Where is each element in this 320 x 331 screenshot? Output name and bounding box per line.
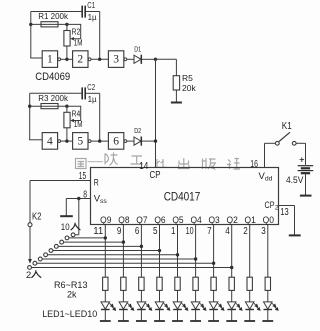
LED2: [122, 290, 124, 302]
svg-text:Q2: Q2: [227, 215, 238, 226]
node D2 output junction: [154, 139, 157, 142]
svg-text:1: 1: [47, 54, 53, 66]
resistor column 10: [265, 277, 270, 290]
inverter gate 6: [108, 133, 123, 150]
ground LED5: [177, 310, 179, 321]
svg-text:2k: 2k: [67, 289, 77, 299]
svg-text:3: 3: [261, 226, 266, 237]
wire input node osc2: [29, 93, 31, 140]
ground at pin13: [289, 234, 301, 236]
svg-text:13: 13: [280, 207, 289, 218]
svg-text:Q5: Q5: [172, 215, 183, 226]
resistor column 9: [247, 277, 252, 290]
inverter gate 1: [42, 51, 57, 68]
wire gate out 1-2: [61, 140, 73, 142]
svg-text:Q1: Q1: [245, 215, 256, 226]
svg-text:6: 6: [135, 226, 140, 237]
wire contact to Q7: [58, 245, 141, 247]
wire column Q1: [249, 225, 251, 278]
resistor column 5: [175, 277, 180, 290]
ground under R5: [175, 90, 177, 102]
battery 4.5V: [300, 159, 305, 161]
wire top feedback osc2: [30, 92, 82, 94]
wire node to R5: [156, 58, 177, 60]
inverter gate 4: [42, 133, 57, 150]
wire pin8 to ground: [66, 198, 90, 200]
inverter gate 2: [73, 51, 88, 68]
svg-text:1: 1: [171, 226, 176, 237]
svg-text:10: 10: [61, 222, 70, 233]
svg-text:C2: C2: [87, 83, 95, 92]
svg-text:Vdd: Vdd: [259, 171, 273, 183]
ground at Vss: [65, 199, 67, 216]
LED5: [177, 290, 179, 302]
wire column Q9: [104, 225, 106, 278]
wire column Q2: [231, 225, 233, 278]
svg-text:2: 2: [26, 270, 31, 281]
svg-text:K1: K1: [282, 121, 292, 132]
LED8: [231, 290, 233, 302]
svg-text:2: 2: [77, 54, 83, 66]
ground LED7: [213, 310, 215, 321]
node R1 left junction: [29, 23, 32, 26]
wire column Q0: [267, 225, 269, 278]
inverter gate 5: [73, 133, 88, 150]
resistor column 3: [139, 277, 144, 290]
svg-text:CD4069: CD4069: [35, 71, 70, 83]
svg-text:20k: 20k: [182, 83, 196, 93]
wire column Q7: [140, 225, 142, 278]
svg-text:Q6: Q6: [154, 215, 165, 226]
svg-text:Q3: Q3: [208, 215, 219, 226]
ground LED10: [267, 310, 269, 321]
svg-text:10: 10: [186, 226, 194, 237]
svg-text:CP: CP: [265, 200, 275, 211]
ground at battery: [300, 195, 312, 197]
svg-text:11: 11: [93, 226, 103, 237]
svg-text:5: 5: [153, 226, 158, 237]
wire column Q5: [177, 225, 179, 278]
diode D1: [127, 58, 134, 60]
svg-text:14: 14: [139, 161, 148, 172]
capacitor C1 1µ: [81, 6, 83, 18]
svg-text:CP: CP: [150, 170, 161, 181]
contact 8-person: [60, 240, 64, 244]
svg-text:7: 7: [207, 226, 212, 237]
wire column Q4: [195, 225, 197, 278]
watermark publisher row: [76, 153, 241, 170]
LED4: [159, 290, 161, 302]
capacitor C2 1µ: [81, 87, 83, 99]
resistor R3 200k: [41, 104, 58, 109]
svg-text:6: 6: [113, 135, 119, 147]
wire column Q3: [213, 225, 215, 278]
svg-text:1µ: 1µ: [88, 95, 97, 104]
wire gate out 1-2: [61, 58, 73, 60]
wire top feedback osc1: [31, 11, 82, 13]
wire contact to Q3: [37, 262, 214, 264]
wire contact to Q6: [53, 250, 160, 252]
svg-text:C1: C1: [87, 1, 95, 10]
wire R branch osc1: [31, 23, 67, 25]
resistor column 7: [211, 277, 216, 290]
LED3: [140, 290, 142, 302]
diode D2: [127, 140, 134, 142]
LED6: [195, 290, 197, 302]
contact 4-person: [38, 257, 42, 261]
contact 3-person: [33, 261, 37, 265]
wire column Q8: [122, 225, 124, 278]
svg-text:Q8: Q8: [118, 215, 129, 226]
svg-text:4: 4: [47, 135, 53, 147]
ground LED4: [159, 310, 161, 321]
ground LED8: [231, 310, 233, 321]
svg-text:K2: K2: [32, 211, 42, 222]
wire K1 to battery: [296, 142, 305, 144]
wire battery to ground: [305, 174, 307, 195]
wire gate out 2-3: [91, 58, 108, 60]
inverter gate 3: [108, 51, 123, 68]
svg-text:5: 5: [77, 135, 83, 147]
svg-text:Q9: Q9: [100, 215, 111, 226]
wire contact to Q2: [32, 266, 232, 268]
svg-text:D1: D1: [134, 44, 141, 53]
node D1 output junction: [154, 58, 157, 61]
resistor column 4: [157, 277, 162, 290]
wire Vss to contact-10: [78, 199, 80, 235]
svg-text:LED1~LED10: LED1~LED10: [42, 309, 97, 319]
ground LED6: [195, 310, 197, 321]
svg-text:D2: D2: [134, 126, 141, 135]
svg-text:Q0: Q0: [263, 215, 274, 226]
wire pin16 to K1: [264, 143, 266, 167]
wire gate out 2-3: [91, 140, 108, 142]
svg-text:Q7: Q7: [136, 215, 147, 226]
node R3 left junction: [28, 105, 31, 108]
resistor column 1: [103, 277, 108, 290]
svg-text:2: 2: [243, 226, 248, 237]
resistor column 8: [229, 277, 234, 290]
ground LED9: [249, 310, 251, 321]
svg-text:2: 2: [275, 204, 279, 211]
svg-text:R3 200k: R3 200k: [38, 94, 69, 103]
ground LED1: [104, 310, 106, 321]
svg-text:R4: R4: [72, 109, 81, 118]
contact 5-person: [44, 253, 48, 257]
svg-text:R1 200k: R1 200k: [38, 12, 69, 21]
resistor column 2: [121, 277, 126, 290]
IC U1 CD4017: [91, 168, 279, 225]
LED7: [213, 290, 215, 302]
LED1: [104, 290, 106, 302]
resistor R1 200k: [41, 22, 58, 27]
svg-text:CD4017: CD4017: [164, 191, 201, 203]
node pot top junction: [65, 23, 68, 26]
contact 10-person (ground): [71, 233, 75, 237]
ground LED2: [122, 310, 124, 321]
svg-text:R5: R5: [182, 73, 193, 83]
potentiometer R4 1M: [66, 106, 68, 112]
K2 wiper arrow: [29, 227, 31, 260]
resistor column 6: [193, 277, 198, 290]
resistor R5 20k: [173, 76, 179, 90]
potentiometer R2 1M: [66, 24, 68, 30]
contact 7-person: [54, 244, 58, 248]
wire contact to Q9: [69, 237, 105, 239]
K2 wiper contact: [28, 223, 32, 227]
ground LED3: [140, 310, 142, 321]
svg-text:1µ: 1µ: [88, 13, 97, 22]
svg-text:4.5V: 4.5V: [286, 175, 304, 186]
wire contact to Q5: [48, 254, 178, 256]
svg-text:1M: 1M: [74, 38, 83, 47]
wire input node osc1: [30, 12, 32, 59]
wire clock bus: [155, 59, 157, 167]
contact 2-person: [28, 266, 32, 270]
wire R branch osc2: [30, 105, 67, 107]
svg-text:4: 4: [225, 226, 230, 237]
wire contact to Q8: [64, 241, 124, 243]
svg-text:R2: R2: [72, 28, 81, 37]
wire column Q6: [159, 225, 161, 278]
LED10: [267, 290, 269, 302]
contact 6-person: [49, 249, 53, 253]
contact 9-person: [65, 236, 69, 240]
svg-text:1M: 1M: [74, 120, 83, 129]
svg-text:9: 9: [117, 226, 122, 237]
wire pin15 to K2: [30, 180, 91, 182]
svg-text:3: 3: [113, 54, 119, 66]
LED9: [249, 290, 251, 302]
svg-text:R: R: [94, 177, 99, 188]
node pot top junction: [65, 105, 68, 108]
svg-text:Q4: Q4: [190, 215, 201, 226]
wire contact to Q4: [42, 258, 195, 260]
svg-text:16: 16: [250, 159, 258, 170]
svg-text:Vss: Vss: [94, 194, 108, 206]
